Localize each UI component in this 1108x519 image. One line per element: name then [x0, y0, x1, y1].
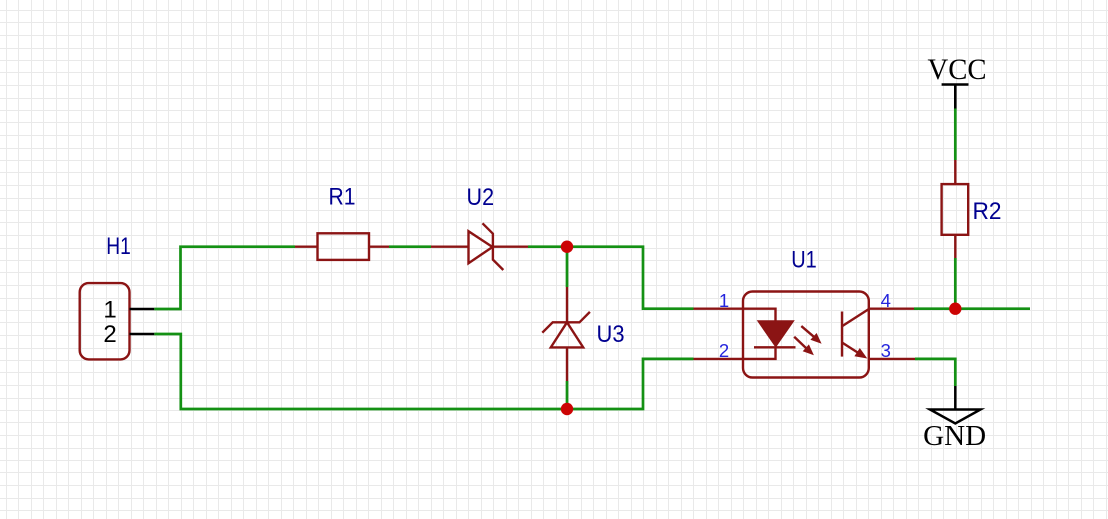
node C junction: [949, 303, 961, 315]
wire U3 anode to node B: [566, 381, 569, 409]
svg-text:4: 4: [881, 290, 891, 311]
resistor R1 body: [318, 233, 370, 260]
U1 light arrow 1: [801, 326, 821, 344]
svg-text:U1: U1: [791, 246, 817, 273]
wire U1 pin4 to node C to right stub: [914, 307, 1030, 310]
connector H1 body: [80, 283, 130, 359]
wire top rail R1 to U2: [389, 245, 431, 248]
svg-text:VCC: VCC: [928, 53, 987, 86]
U1 light arrow 2: [794, 337, 814, 356]
svg-text:1: 1: [103, 296, 116, 323]
svg-text:2: 2: [103, 321, 116, 348]
wire U1 pin3 to GND: [915, 359, 955, 386]
wire H1 pin2 to bottom rail to U1 pin2: [154, 334, 693, 409]
svg-text:U2: U2: [467, 184, 495, 211]
svg-text:2: 2: [719, 340, 729, 361]
U1 pin 4 lead: [869, 308, 914, 310]
wire U2 to node A to U1 pin1: [528, 247, 694, 309]
svg-text:3: 3: [881, 340, 891, 361]
U1 pin 3 lead: [869, 358, 915, 360]
power flag VCC symbol: [942, 85, 969, 109]
U1 phototransistor: [842, 309, 869, 358]
node B junction: [561, 403, 573, 415]
zener diode U2: [431, 223, 528, 270]
wire node A to U3 cathode: [566, 247, 569, 287]
wire R2 bottom to node C: [954, 258, 957, 309]
resistor R2 pins: [954, 160, 956, 258]
zener diode U3: [542, 287, 590, 381]
U1 internal LED: [743, 309, 796, 359]
resistor R2 body: [942, 184, 969, 235]
wire H1 pin1 to top rail: [154, 247, 295, 309]
optocoupler U1 body: [743, 292, 869, 378]
U1 pin 2 lead: [694, 358, 744, 360]
resistor R1 pins: [295, 245, 389, 247]
svg-text:R2: R2: [973, 198, 1002, 225]
ground symbol GND: [930, 386, 981, 424]
svg-text:1: 1: [719, 290, 729, 311]
connector H1 pin 1 stub: [130, 308, 155, 310]
connector H1 pin 2 stub: [130, 333, 155, 335]
wire VCC to R2 top: [954, 109, 957, 161]
U1 pin 1 lead: [694, 308, 744, 310]
svg-text:U3: U3: [597, 321, 625, 348]
svg-text:H1: H1: [106, 233, 131, 260]
svg-text:R1: R1: [329, 184, 356, 211]
node A junction: [561, 241, 573, 253]
svg-text:GND: GND: [923, 420, 986, 452]
